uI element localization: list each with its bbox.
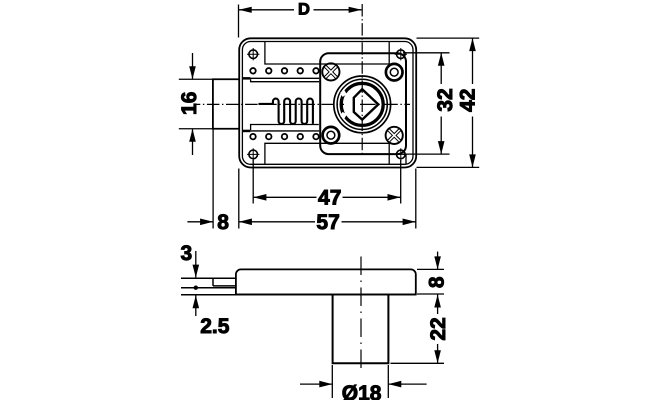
svg-text:D: D — [298, 1, 310, 19]
plate right edge stub — [405, 155, 407, 165]
cylinder mounting plate — [320, 53, 406, 154]
dimension 3 — [195, 251, 197, 277]
svg-text:47: 47 — [318, 187, 341, 210]
svg-text:2.5: 2.5 — [200, 315, 230, 338]
dimension 42 — [417, 38, 480, 167]
corner fixing hole bottom-right — [395, 148, 407, 160]
dimension Ø18 — [300, 365, 427, 398]
top recess rectangle — [265, 42, 389, 64]
svg-text:Ø18: Ø18 — [342, 382, 382, 400]
dimension 57 — [239, 169, 416, 229]
bolt guide thick bar bottom — [242, 130, 250, 133]
plate side view — [236, 269, 416, 294]
pocket line top — [251, 79, 320, 82]
screw hole row bottom — [250, 134, 319, 140]
svg-text:16: 16 — [178, 92, 201, 115]
svg-text:22: 22 — [427, 317, 450, 340]
screw hole row top — [250, 68, 319, 74]
reference dot — [194, 286, 198, 290]
cylinder outer circle — [334, 76, 391, 133]
svg-text:8: 8 — [217, 211, 229, 234]
dimension 8 (backset left) — [187, 130, 213, 229]
plate bottom line — [236, 294, 416, 296]
vertical centerline — [361, 4, 363, 154]
svg-text:57: 57 — [316, 211, 339, 234]
cylinder retaining ring with notches — [340, 83, 383, 125]
guide line bottom full — [242, 130, 319, 132]
dimension 32 — [403, 53, 450, 154]
svg-text:3: 3 — [180, 242, 192, 265]
svg-text:42: 42 — [457, 89, 480, 112]
dimension 8 (side view) — [417, 252, 444, 294]
dimension 2.5 — [195, 296, 197, 317]
plate screw X top-left — [322, 63, 339, 80]
corner fixing hole top-right — [395, 48, 407, 60]
bottom recess rectangle — [265, 143, 389, 164]
plate pin ring bottom-left — [323, 127, 340, 144]
corner fixing hole bottom-left — [247, 148, 259, 160]
cylinder second circle — [337, 79, 387, 129]
horizontal centerline — [194, 103, 344, 105]
dimension 16 — [179, 53, 212, 155]
plate screw X bottom-right — [386, 127, 403, 144]
spring base line bottom — [251, 125, 319, 131]
svg-text:8: 8 — [426, 276, 449, 288]
dimension 22 — [391, 295, 445, 364]
bolt (latch) protruding left, top view — [213, 79, 239, 129]
lock body outer outline (top view) — [239, 38, 416, 167]
cylinder cam (diamond) — [354, 89, 379, 119]
cylinder side view — [333, 295, 389, 364]
corner fixing hole top-left — [247, 48, 259, 60]
guide line top full — [242, 77, 319, 79]
side vertical centerline — [360, 257, 362, 373]
bolt guide thick bar top — [242, 77, 250, 80]
dimension 47 — [253, 160, 401, 204]
svg-text:32: 32 — [434, 88, 457, 111]
spring — [259, 99, 313, 124]
dimension D — [239, 5, 362, 38]
lock body inner outline — [242, 42, 413, 165]
bolt side view lines — [181, 278, 236, 295]
plate pin ring top-right — [386, 64, 403, 81]
